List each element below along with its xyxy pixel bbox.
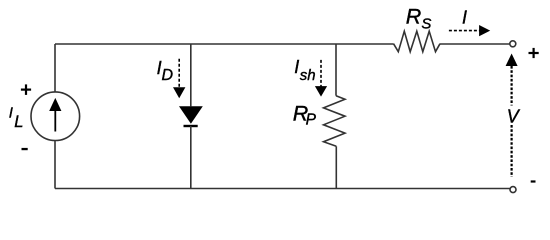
svg-text:R: R (406, 5, 422, 29)
current source IL (31, 92, 80, 141)
svg-text:I: I (462, 8, 467, 28)
wire shunt branch upper (335, 44, 337, 96)
current arrow ID (173, 59, 185, 99)
label RS (406, 5, 432, 33)
wire top (node A: source/diode/shunt top rail) (55, 43, 394, 45)
svg-text:S: S (421, 16, 431, 33)
terminal + (output) (510, 41, 516, 47)
label - (output) (531, 180, 536, 182)
label ID (157, 58, 174, 84)
label Ish (294, 57, 315, 84)
wire RS to + terminal (440, 43, 510, 45)
svg-text:V: V (507, 106, 521, 126)
label + (source polarity) (21, 89, 31, 91)
current arrow Ish (315, 60, 327, 97)
wire bottom (node B: bottom rail) (55, 188, 510, 190)
wire shunt branch lower (335, 146, 337, 188)
wire diode branch lower (190, 126, 192, 189)
label IL (9, 105, 24, 131)
resistor RP (324, 96, 346, 147)
wire diode branch upper (190, 44, 192, 106)
svg-text:sh: sh (300, 67, 316, 84)
resistor RS (394, 31, 441, 52)
wire left upper (source + terminal to top rail) (54, 44, 56, 92)
terminal - (output) (510, 187, 516, 193)
diode D (179, 106, 203, 126)
wire left lower (source - terminal to bottom rail) (54, 141, 56, 189)
svg-text:P: P (306, 111, 317, 128)
label + (output) (529, 52, 539, 54)
label - (source polarity) (22, 148, 28, 150)
voltage arrow V (506, 54, 518, 178)
svg-text:I: I (294, 57, 299, 77)
svg-text:D: D (162, 67, 174, 84)
current arrow I (449, 25, 490, 36)
svg-text:I: I (9, 105, 13, 122)
label RP (293, 101, 317, 128)
svg-text:L: L (14, 113, 23, 131)
